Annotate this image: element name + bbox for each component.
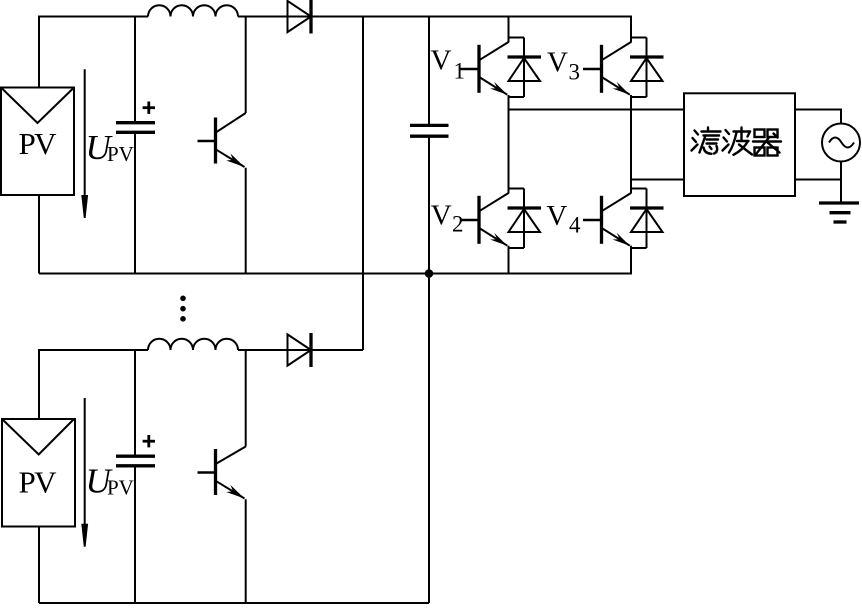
IGBT V3 emitter stub	[631, 96, 647, 98]
wire bridge left leg	[508, 17, 510, 274]
AC source (grid)	[822, 124, 860, 162]
label V1	[431, 44, 466, 83]
text 器	[753, 130, 781, 156]
IGBT V4 collector stub	[631, 188, 647, 190]
diode D2 (boost diode)	[288, 333, 312, 367]
PV panel PV2	[2, 419, 75, 527]
PV panel PV1	[1, 88, 74, 196]
wire AC output top (left leg midpoint to filter)	[509, 109, 685, 111]
svg-text:V: V	[431, 44, 452, 76]
svg-text:1: 1	[454, 58, 466, 83]
plus sign C2 polarity	[143, 435, 155, 447]
wire filter to AC source bottom	[795, 179, 841, 181]
arrow U_PV1 voltage arrow	[81, 69, 88, 218]
IGBT V2 antiparallel diode D2	[508, 189, 542, 249]
label V2	[431, 200, 464, 237]
wire AC source to ground	[840, 162, 842, 204]
IGBT V1 emitter stub	[509, 96, 525, 98]
svg-text:V: V	[547, 46, 568, 78]
inductor L2	[148, 339, 238, 350]
svg-text:4: 4	[569, 213, 581, 238]
text 波	[723, 128, 753, 155]
IGBT V1 collector stub	[509, 37, 525, 39]
wire PV2 top lead	[38, 350, 40, 420]
IGBT V4 emitter stub	[631, 247, 647, 249]
transistor V3 body	[583, 42, 631, 95]
transistor V2 body	[461, 193, 509, 246]
IGBT V4 antiparallel diode D4	[630, 189, 664, 249]
wire PV1 top lead	[38, 17, 40, 89]
wire DC-link negative down to string 2 bottom	[428, 274, 430, 604]
IGBT V2 collector stub	[509, 188, 525, 190]
svg-text:3: 3	[569, 60, 581, 85]
svg-text:V: V	[431, 200, 452, 232]
IGBT V3 collector stub	[631, 37, 647, 39]
svg-text:PV: PV	[107, 476, 134, 500]
transistor V1 body	[461, 42, 509, 95]
wire left vertical string 1	[38, 16, 40, 89]
wire top DC bus	[39, 16, 632, 18]
wire top bus string 2	[39, 349, 363, 351]
wire filter to AC source top	[795, 110, 841, 124]
plus sign C1 polarity	[143, 102, 155, 114]
capacitor C3 (DC-link)	[410, 17, 449, 274]
wire AC output bottom (right leg midpoint to filter)	[631, 179, 684, 181]
svg-text:PV: PV	[19, 126, 58, 161]
filter box 滤波器	[684, 93, 795, 196]
wire left vertical string 2	[38, 349, 40, 420]
wire bridge right leg	[630, 17, 632, 274]
wire PV1 bottom lead	[38, 194, 40, 274]
inductor L1	[148, 5, 238, 16]
text 滤	[692, 128, 721, 154]
wire bottom bus string 1 / bridge	[39, 273, 632, 275]
transistor Q1 (boost switch)	[198, 17, 246, 274]
wire PV2 bottom lead	[38, 526, 40, 604]
ground	[819, 203, 859, 222]
label U_PV2	[86, 462, 134, 501]
transistor Q2 (boost switch)	[198, 350, 246, 603]
capacitor C2 (PV-side input cap)	[116, 350, 155, 603]
wire from diode D2 output up to DC bus	[362, 17, 364, 351]
dots (more strings)	[180, 296, 186, 322]
arrow U_PV2 voltage arrow	[81, 398, 88, 547]
wire bottom bus string 2	[39, 602, 429, 604]
svg-text:PV: PV	[107, 142, 134, 166]
IGBT V1 antiparallel diode D1	[508, 38, 542, 98]
diode D1 (boost diode)	[288, 0, 312, 34]
label U_PV1	[86, 128, 134, 167]
capacitor C1 (PV-side input cap)	[116, 17, 155, 274]
transistor V4 body	[583, 193, 631, 246]
label V4	[546, 200, 581, 238]
svg-text:PV: PV	[19, 465, 58, 500]
svg-text:V: V	[546, 200, 567, 232]
label V3	[547, 46, 580, 84]
svg-text:2: 2	[452, 212, 464, 237]
IGBT V2 emitter stub	[509, 247, 525, 249]
IGBT V3 antiparallel diode D3	[630, 38, 664, 98]
node junction dot	[425, 269, 434, 278]
